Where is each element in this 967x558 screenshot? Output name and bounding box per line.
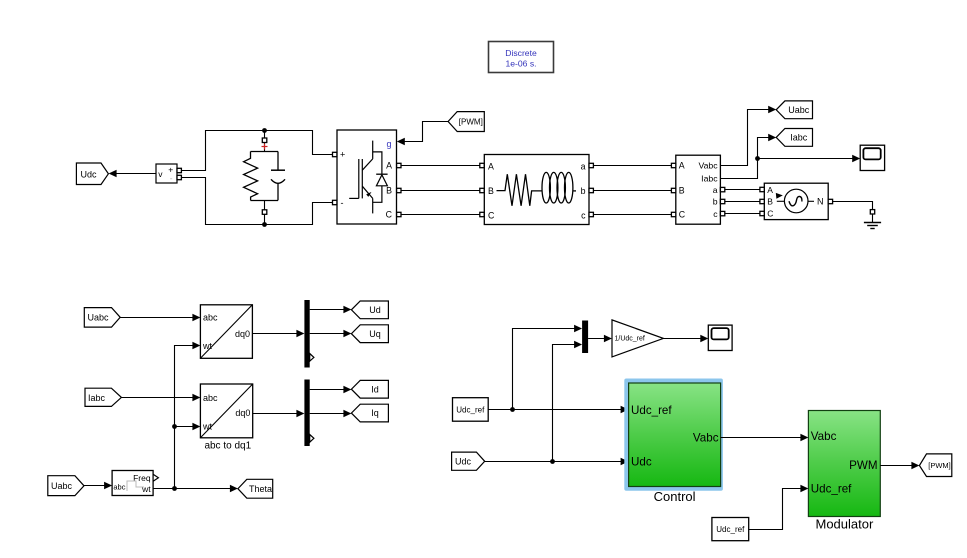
svg-text:Iabc: Iabc: [790, 133, 808, 143]
svg-text:Ud: Ud: [369, 305, 381, 315]
three-phase V-I measurement block: [676, 155, 721, 224]
filter series inductor icon: [542, 172, 576, 203]
measurement port b: [720, 199, 724, 203]
demux 2: [304, 380, 314, 447]
scope (top right): [860, 145, 884, 170]
filter port B: [480, 188, 484, 192]
svg-text:A: A: [679, 161, 685, 171]
wire wt up to dq blocks: [175, 342, 201, 489]
capacitor C (DC link): [271, 152, 285, 201]
svg-text:[PWM]: [PWM]: [928, 461, 951, 470]
wire bridge A to filter A: [401, 165, 480, 167]
measurement port a: [720, 187, 724, 191]
wire Udc up to mux: [553, 341, 583, 462]
svg-text:v: v: [158, 169, 163, 179]
three-phase series RL filter block: [484, 155, 589, 225]
goto tag Uabc: [776, 101, 812, 119]
wire filter b to measurement B: [593, 190, 671, 192]
svg-text:B: B: [386, 185, 392, 195]
bridge port C: [397, 212, 401, 216]
filter port a: [589, 163, 593, 167]
svg-text:Udc_ref: Udc_ref: [811, 483, 852, 496]
svg-text:C: C: [386, 210, 393, 220]
svg-text:abc: abc: [113, 482, 125, 491]
resistor R (DC link): [244, 152, 258, 201]
svg-text:Iabc: Iabc: [88, 393, 106, 403]
svg-text:a: a: [713, 185, 718, 195]
wire demux to Uq tag: [310, 330, 352, 338]
svg-text:Uabc: Uabc: [788, 105, 810, 115]
from tag Udc: [452, 452, 485, 470]
wire Udc_ref to Control: [488, 406, 628, 414]
filter series resistor icon: [497, 174, 542, 206]
svg-text:Uabc: Uabc: [88, 313, 110, 323]
wire RC parallel top: [251, 151, 279, 153]
svg-text:Uabc: Uabc: [51, 481, 73, 491]
ground port: [870, 210, 874, 214]
goto tag Id: [351, 380, 388, 398]
wire dq0 output to demux 2: [253, 410, 305, 418]
svg-text:Control: Control: [654, 489, 696, 504]
PLL block (abc Freq wt): [112, 471, 153, 496]
goto tag Iq: [351, 404, 388, 422]
source port A: [760, 187, 764, 191]
three-phase AC source block: [764, 183, 828, 219]
source port N: [828, 199, 832, 203]
PLL Freq unconnected output port: [153, 474, 158, 481]
bridge port B: [397, 188, 401, 192]
wire Iabc to Iabc tag: [720, 134, 776, 179]
constant block Udc_ref (lower): [712, 518, 749, 541]
wire DC bus negative: [181, 178, 332, 225]
wire measurement a to source A: [725, 189, 760, 191]
wire voltage measurement to Udc tag: [109, 170, 156, 178]
ground symbol: [864, 214, 881, 229]
svg-text:N: N: [817, 197, 824, 207]
demux 1: [304, 300, 314, 368]
abc to dq0 block 2: [200, 384, 252, 438]
RC branch bottom lead: [262, 201, 267, 225]
svg-text:1e-06 s.: 1e-06 s.: [505, 59, 536, 69]
polarity mark + (red): [262, 144, 268, 150]
svg-text:Iabc: Iabc: [701, 173, 718, 183]
svg-text:Modulator: Modulator: [815, 517, 873, 532]
goto tag Theta: [238, 479, 273, 498]
goto tag Iabc: [776, 129, 812, 147]
svg-text:c: c: [581, 210, 586, 220]
bridge port +: [333, 152, 337, 156]
svg-text:Theta: Theta: [249, 484, 272, 494]
wire filter a to measurement A: [593, 165, 671, 167]
node wt junction: [172, 486, 177, 491]
wire Uabc to PLL: [84, 482, 112, 490]
svg-text:C: C: [679, 209, 686, 219]
svg-text:[PWM]: [PWM]: [459, 118, 483, 127]
wire wt to Theta tag: [153, 485, 238, 493]
svg-text:abc: abc: [203, 313, 218, 323]
svg-text:B: B: [767, 197, 773, 207]
node bottom DC bus: [262, 222, 267, 227]
svg-text:A: A: [767, 185, 773, 195]
svg-text:abc: abc: [203, 393, 218, 403]
wire gain to scope: [663, 335, 708, 343]
svg-text:Udc: Udc: [631, 455, 652, 468]
node Udc junction: [550, 459, 555, 464]
node Udc_ref junction: [510, 407, 515, 412]
svg-text:Udc: Udc: [455, 457, 472, 467]
measurement port A: [671, 163, 675, 167]
filter port b: [589, 188, 593, 192]
subsystem Modulator: [808, 411, 880, 517]
svg-text:b: b: [713, 196, 718, 206]
svg-text:+: +: [340, 150, 345, 160]
svg-text:PWM: PWM: [849, 459, 877, 472]
from tag [PWM]: [448, 112, 484, 132]
from tag Uabc (dq0 voltage): [84, 308, 120, 328]
svg-text:c: c: [713, 209, 718, 219]
measurement port B: [671, 188, 675, 192]
svg-text:B: B: [488, 186, 494, 196]
measurement port C: [671, 212, 675, 216]
RC branch top lead: [262, 131, 267, 152]
from tag Iabc (dq0 current): [85, 388, 121, 406]
svg-text:wt: wt: [202, 341, 212, 351]
svg-text:Iq: Iq: [371, 408, 379, 418]
svg-text:Vabc: Vabc: [693, 432, 719, 445]
subsystem Control (selected, blue halo): [624, 379, 723, 491]
scope (Udc): [708, 325, 732, 350]
goto tag Uq: [351, 325, 388, 343]
goto tag [PWM]: [919, 454, 951, 477]
svg-text:abc to dq1: abc to dq1: [204, 441, 251, 452]
wire DC bus positive: [181, 131, 332, 171]
wire RC parallel bottom: [251, 200, 279, 202]
from tag Uabc (PLL input): [48, 476, 84, 496]
wire dq0 output to demux 1: [252, 330, 304, 338]
svg-text:dq0: dq0: [235, 329, 250, 339]
wire demux to Ud tag: [310, 306, 352, 314]
mux: [582, 321, 588, 354]
wire measurement c to source C: [725, 213, 760, 215]
abc to dq0 block 1: [200, 305, 252, 359]
voltage measurement block U1: [156, 164, 181, 183]
svg-text:A: A: [386, 161, 392, 171]
svg-text:Vabc: Vabc: [698, 161, 718, 171]
svg-text:b: b: [581, 186, 586, 196]
node Iabc to scope junction: [755, 156, 760, 161]
svg-text:Udc_ref: Udc_ref: [631, 404, 672, 417]
wire demux to Iq tag: [310, 410, 352, 418]
wire N to ground: [833, 202, 873, 210]
goto tag Ud: [351, 301, 388, 319]
svg-text:Udc_ref: Udc_ref: [456, 405, 485, 414]
wire Uabc to abc input: [120, 314, 200, 322]
wire Udc_ref to Modulator: [749, 485, 809, 530]
wire Udc_ref up to mux: [513, 325, 583, 410]
wire mux to gain: [588, 335, 612, 343]
svg-text:Id: Id: [371, 384, 379, 394]
wire PWM to goto tag: [880, 462, 919, 470]
svg-text:A: A: [488, 161, 494, 171]
wire Control Vabc to Modulator: [721, 434, 809, 442]
wire PWM to gate g: [397, 122, 448, 146]
bridge port -: [333, 200, 337, 204]
svg-text:Vabc: Vabc: [811, 430, 837, 443]
svg-text:dq0: dq0: [235, 408, 250, 418]
svg-text:C: C: [488, 210, 495, 220]
filter port C: [480, 212, 484, 216]
wire Vabc to Uabc tag: [720, 106, 776, 166]
wire measurement b to source B: [725, 201, 760, 203]
source port C: [760, 211, 764, 215]
svg-text:Uq: Uq: [369, 329, 381, 339]
svg-text:1/Udc_ref: 1/Udc_ref: [615, 336, 645, 343]
IGBT with antiparallel diode icon: [349, 141, 387, 214]
svg-text:-: -: [341, 198, 344, 208]
source port B: [760, 199, 764, 203]
svg-text:Udc: Udc: [81, 169, 98, 179]
svg-text:g: g: [386, 139, 391, 149]
wire wt to dq block 2: [175, 423, 201, 431]
wire filter c to measurement C: [593, 214, 671, 216]
wire junction to scope: [758, 155, 861, 163]
svg-text:wt: wt: [202, 422, 212, 432]
svg-text:-: -: [170, 173, 173, 183]
measurement port c: [720, 211, 724, 215]
wire demux to Id tag: [310, 386, 352, 394]
goto tag Udc: [76, 163, 108, 185]
bridge port A: [397, 163, 401, 167]
svg-text:wt: wt: [141, 484, 151, 494]
svg-text:Discrete: Discrete: [505, 48, 537, 58]
svg-text:Udc_ref: Udc_ref: [716, 525, 745, 534]
node top DC bus: [262, 128, 267, 133]
wire Udc to Control: [485, 458, 629, 466]
node wt to dq1: [172, 424, 177, 429]
filter port c: [589, 212, 593, 216]
IGBT bridge block: [337, 130, 397, 224]
powergui block Discrete 1e-06 s.: [489, 42, 554, 73]
svg-text:C: C: [767, 208, 773, 218]
svg-text:B: B: [679, 185, 685, 195]
gain 1/Udc_ref: [612, 320, 663, 357]
wire bridge C to filter C: [401, 214, 480, 216]
svg-text:a: a: [581, 161, 586, 171]
constant block Udc_ref (upper): [453, 398, 489, 422]
wire Iabc to abc input: [121, 394, 200, 402]
filter port A: [480, 163, 484, 167]
wire bridge B to filter B: [401, 190, 480, 192]
